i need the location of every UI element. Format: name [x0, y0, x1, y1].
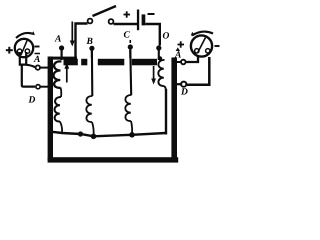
- wire post A (right) to G2 left stem: [186, 56, 198, 62]
- battery B1 long plate: [137, 10, 139, 31]
- svg-text:D: D: [28, 96, 36, 106]
- wire right bus to post A (right): [177, 61, 182, 63]
- hanging coil 2 loops: [86, 96, 92, 122]
- svg-text:B: B: [86, 37, 93, 47]
- tap O stem into right end coil: [158, 48, 160, 60]
- left coil tail to bottom wire: [60, 122, 62, 133]
- svg-text:O: O: [163, 32, 170, 42]
- binding post D (right): [181, 82, 186, 87]
- svg-text:D: D: [180, 88, 188, 98]
- switch S1 lever: [93, 6, 117, 16]
- G1 under-box wire: [20, 52, 26, 65]
- svg-text:C: C: [124, 31, 131, 41]
- hanging coil 3 loops: [125, 95, 131, 121]
- G2 plus label: [178, 41, 185, 47]
- galvanometer G1 body: [15, 39, 33, 57]
- wire post D right to G2 right stem: [187, 57, 209, 85]
- down arrow at right coil: [151, 66, 156, 85]
- left bus bar (thick): [48, 57, 53, 161]
- feed wire from left bus top to switch wire: [48, 57, 77, 60]
- coil 3 tail: [131, 121, 132, 134]
- G1 minus label: [35, 46, 40, 48]
- galvanometer G2 body: [191, 35, 212, 56]
- junction dot coil 3: [129, 132, 135, 138]
- tap C stem over bar: [129, 50, 132, 95]
- G2 minus label: [215, 45, 220, 47]
- tap B stem over bar: [91, 50, 94, 96]
- binding post D (left): [36, 85, 40, 89]
- left end coil upper loops: [54, 61, 62, 87]
- tap node C dot: [128, 44, 133, 49]
- svg-text:A: A: [174, 51, 181, 61]
- solenoid bar (primary): [64, 58, 158, 66]
- battery plus label: [124, 11, 131, 17]
- right bus bar (thick): [171, 58, 177, 163]
- left hanging coil lower loops: [55, 97, 61, 122]
- switch S1 left contact: [88, 19, 93, 24]
- label A with up arrow (right): [174, 47, 181, 60]
- svg-text:A: A: [33, 55, 40, 65]
- tap node B dot: [89, 46, 94, 51]
- junction dot coil 2: [91, 134, 97, 140]
- label A-bar (left post): [33, 54, 40, 66]
- wire G1 box to post A: [26, 65, 35, 67]
- right end coil loops: [158, 60, 164, 86]
- switch S1 right contact: [109, 19, 114, 24]
- tap C stem through bar: [129, 47, 131, 58]
- right coil junction dot at bar: [158, 56, 162, 60]
- coil 2 tail: [92, 122, 94, 135]
- wire right bus to post D (right): [177, 83, 182, 85]
- junction dot coil 1: [78, 131, 83, 136]
- wire switch to battery: [114, 23, 138, 25]
- binding post A (right): [181, 60, 186, 65]
- binding post A (left): [36, 65, 40, 69]
- galvanometer G1 (left) scale arc: [16, 31, 35, 38]
- wire G1 down to post D: [22, 65, 35, 87]
- svg-text:A: A: [54, 35, 61, 45]
- right coil tail to inner edge: [164, 86, 166, 91]
- wire switch to corner and down to feed wire: [76, 24, 88, 59]
- wire post D to left bus: [41, 86, 50, 88]
- G1 plus label: [6, 47, 13, 54]
- battery minus label: [148, 13, 155, 15]
- wire post A to left bus: [40, 67, 49, 69]
- wire battery to corner and down to tap O: [145, 24, 160, 46]
- battery B1 short plate: [142, 14, 146, 25]
- tap node A dot: [59, 45, 64, 50]
- inner bottom wire: [52, 132, 166, 137]
- tap A stem: [60, 48, 62, 60]
- galvanometer G2 (right) scale arc: [191, 32, 213, 36]
- up arrow at left coil: [64, 63, 69, 83]
- inner right edge wire: [165, 89, 167, 135]
- left coil spine: [60, 88, 63, 98]
- current arrow down (left branch): [70, 22, 75, 47]
- tap C tick: [129, 40, 131, 43]
- tap B stem through bar: [91, 48, 93, 58]
- outer bottom wire (thick): [48, 157, 179, 162]
- tap node O dot: [156, 45, 161, 50]
